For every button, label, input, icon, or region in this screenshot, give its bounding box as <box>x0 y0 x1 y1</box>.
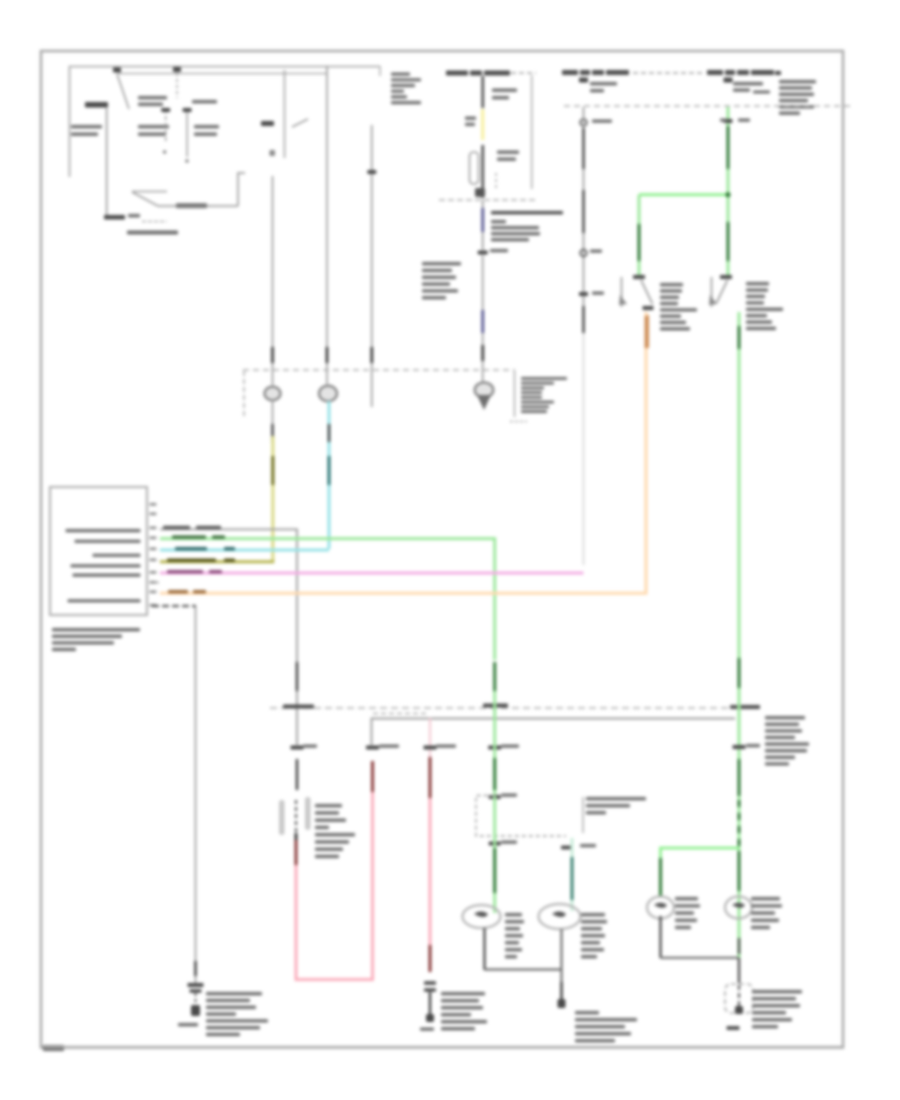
cyan riser below circle <box>328 401 331 549</box>
stop feed dark segment 2 <box>582 190 584 233</box>
x739 dark segment a <box>738 658 741 688</box>
GEM row8 wire dashes <box>152 605 196 607</box>
fuse wire upper dark <box>482 76 484 108</box>
cyan riser dark top <box>328 424 330 442</box>
right BOO switch fixed bar <box>711 277 713 307</box>
connector C diamond tip <box>477 395 491 410</box>
x739 dark above join <box>738 938 740 954</box>
x297 dark segment <box>296 759 299 790</box>
junction dark segment right <box>730 705 760 709</box>
lamp4 body <box>725 897 752 919</box>
pin tick top mid <box>173 67 181 72</box>
label off park <box>138 96 167 106</box>
left BOO connector tick <box>633 275 645 279</box>
x494 splice tick label <box>489 841 517 846</box>
pink wire label 2 <box>209 570 222 573</box>
GEM pin text row1 <box>66 529 141 532</box>
junction dashed bus <box>270 707 758 709</box>
left BOO label block <box>660 283 697 330</box>
lamp3 filament <box>654 903 667 908</box>
GEM pin text row3 <box>93 554 141 557</box>
x739 below join dark <box>738 958 740 983</box>
relay box right edge <box>531 75 533 189</box>
label S main <box>128 214 140 217</box>
label C green feed <box>738 119 750 122</box>
x297 tick label <box>291 745 318 750</box>
main switch wire to riser <box>158 205 238 207</box>
lamp3 label block <box>675 897 700 929</box>
left BOO switch fixed bar <box>621 277 623 307</box>
lamp3 body <box>647 897 674 919</box>
headlamp switch lever <box>117 74 129 109</box>
branch dark segment <box>659 858 662 897</box>
junction row right label block <box>765 716 809 766</box>
lamp3 output wire <box>659 916 661 958</box>
orange wire from GEM <box>160 312 646 593</box>
label stop feed mid <box>590 250 602 253</box>
cyan wire from GEM <box>160 549 329 552</box>
fuse panel label block <box>779 80 816 115</box>
olive wire from GEM <box>160 560 273 562</box>
green feed label tick <box>724 119 733 123</box>
orange wire label <box>168 590 188 593</box>
green wire label <box>172 535 206 538</box>
relay box bottom dashed edge <box>439 199 537 201</box>
pink wire from GEM <box>160 572 584 575</box>
headlamp switch box top edge <box>69 66 380 68</box>
dashed stub below tick <box>176 73 178 98</box>
bottom-left corner mark <box>43 1045 64 1051</box>
left BOO lever <box>641 280 653 304</box>
x430 dark bottom <box>429 992 431 1018</box>
bottom border band <box>44 1046 843 1048</box>
right BOO connector tick <box>720 275 732 279</box>
x430 pink wire <box>429 798 432 947</box>
green junction dot <box>725 192 730 197</box>
left ground dashes <box>195 993 197 1003</box>
gray wire dark segment <box>296 662 299 691</box>
wire riser x272 dark segment <box>271 347 274 363</box>
bus bold text hot at all times 1 <box>562 70 629 75</box>
bars component left bar <box>279 800 285 835</box>
cyan wire label <box>175 547 207 550</box>
left ground wire <box>195 607 197 985</box>
lamp2 label block <box>581 913 607 958</box>
x494 green lower <box>493 796 496 913</box>
DRL module label left of wire <box>422 262 461 299</box>
connector row left dashed edge <box>243 371 245 416</box>
cyan riser dark segment <box>328 456 331 485</box>
main switch riser <box>238 173 245 206</box>
inline connector outline <box>725 984 753 1013</box>
right BOO lever <box>717 280 728 303</box>
bus bottom dashed line <box>564 105 851 107</box>
stop feed tick 2 <box>579 292 588 296</box>
wire x483 lower gray <box>482 255 484 382</box>
green wire label 2 <box>212 535 225 538</box>
x494 dark segment <box>493 662 496 691</box>
contact dot A <box>163 150 166 153</box>
label fuse A <box>590 82 617 92</box>
fuse body outline <box>470 152 479 184</box>
lamp1 body <box>463 905 501 928</box>
x430 end blob <box>426 1014 434 1022</box>
main switch lever bar <box>132 191 167 193</box>
olive wire label <box>167 559 216 562</box>
wire navy segment <box>481 208 484 232</box>
green below right BOO dark <box>738 326 741 349</box>
lamp2 filament <box>552 912 566 918</box>
label on green feed <box>720 119 727 122</box>
x494 tick label row <box>488 745 519 750</box>
wire below relay gray <box>482 200 484 250</box>
x739 long green <box>738 350 741 958</box>
olive wire label 2 <box>224 559 235 562</box>
contact stub B <box>186 108 188 157</box>
lamp2 output dark <box>560 982 562 1004</box>
connector circle C <box>475 383 494 398</box>
lamp1 output wire <box>483 928 485 970</box>
main switch lever arm <box>132 192 158 206</box>
inline connector blob <box>735 1006 743 1014</box>
dashed DRL branch <box>476 796 566 837</box>
GEM pin text row5 <box>73 574 141 577</box>
x372 maroon segment <box>371 761 374 792</box>
label head <box>192 100 217 103</box>
dash under main <box>142 221 167 223</box>
bars component center dashes <box>295 800 297 833</box>
x430 maroon lower <box>429 945 432 972</box>
x494 green mid <box>493 691 496 795</box>
lamp1 filament <box>474 912 488 918</box>
inline connector center <box>738 985 740 1013</box>
connector circle B <box>319 386 337 402</box>
stop feed connector ring <box>580 119 587 126</box>
GEM pin number marks <box>150 503 157 607</box>
label left of relay box <box>391 73 421 105</box>
x430 maroon segment <box>429 757 432 798</box>
GEM pin text row2 <box>75 540 141 543</box>
x430 small left label <box>420 1028 434 1031</box>
lamp2 output wire <box>560 929 562 1004</box>
label head lamps <box>71 125 102 136</box>
lamp1 label block <box>505 913 524 958</box>
fuse wire yellow segment <box>481 109 484 140</box>
green branch dark segment <box>638 224 641 261</box>
mint wire <box>571 838 574 911</box>
headlamp contact bar <box>85 102 108 108</box>
connector row dashed top <box>243 369 515 371</box>
dashed overlay above branch <box>373 713 428 715</box>
wire x483 navy segment 2 <box>481 310 484 333</box>
dimmer feed stub <box>284 70 286 158</box>
DRL note text <box>586 797 646 814</box>
olive riser dark top <box>271 424 273 442</box>
contact tick B <box>183 108 192 112</box>
main switch contact segment <box>176 204 207 209</box>
headlamp switch box top edge inner <box>118 73 327 75</box>
cyan wire label 2 <box>224 547 235 550</box>
label small left <box>465 117 476 127</box>
GEM box <box>50 487 147 615</box>
green feed from bus <box>727 107 730 275</box>
green branch left vertical <box>638 195 641 276</box>
olive riser below circle <box>272 400 274 562</box>
GEM stub pin <box>153 582 159 584</box>
solid branch line <box>372 719 736 746</box>
wire from headlamp contact <box>106 108 108 216</box>
label fuse B right <box>753 91 770 94</box>
DRL note bracket <box>582 797 584 833</box>
bus bold text hot at all times 2 <box>707 70 774 75</box>
dimmer contact tick <box>261 121 274 126</box>
pink U wire <box>296 792 373 980</box>
wire riser x272 upper <box>272 176 274 385</box>
wire riser x272 dash mark <box>270 150 276 156</box>
main switch bottom bar <box>104 215 125 220</box>
wire riser x372 <box>371 125 373 407</box>
left BOO output tick <box>643 306 654 310</box>
green feed dark segment <box>727 126 730 169</box>
mint tick label <box>561 844 596 849</box>
left ground dark segment <box>194 961 197 976</box>
connector row label block <box>515 371 568 417</box>
wire riser x327 dark segment <box>326 347 329 363</box>
wire orange top segment <box>646 315 649 348</box>
bus bold text hot in run <box>446 71 510 76</box>
x430 drop from branch <box>429 718 431 757</box>
wire riser x372 tick <box>367 170 376 174</box>
fuse wire mid dark <box>482 145 484 198</box>
x739 tick label <box>733 744 761 749</box>
stop feed light wire lower <box>583 333 585 565</box>
label MAIN SWITCH <box>127 231 178 235</box>
right pair join wire <box>661 957 740 959</box>
connector circle A <box>265 387 281 401</box>
bars component right bar <box>305 797 311 830</box>
left BOO switch arrow <box>619 295 627 305</box>
cluster label rest <box>491 220 540 241</box>
headlamp switch box left edge <box>69 66 71 177</box>
pin tick on box top <box>113 68 121 73</box>
right ground label block <box>752 990 802 1028</box>
stop feed dark segment 1 <box>582 128 584 169</box>
contact dot B <box>185 159 188 162</box>
stop feed dark segment 3 <box>582 306 584 333</box>
left ground ticks <box>188 983 204 993</box>
stoplamp switch label dashes <box>510 421 527 423</box>
dashed stub in relay box <box>495 173 497 191</box>
dimmer lever <box>292 119 308 127</box>
bars component label block <box>315 804 355 858</box>
x297 maroon segment <box>295 840 298 867</box>
headlamp box top right hook <box>379 66 381 76</box>
wire tick below cluster <box>478 251 488 255</box>
x494 dark lower <box>493 848 496 893</box>
fuse A pin tick <box>579 78 588 83</box>
label fuse B <box>733 82 763 92</box>
lamp2 end blob <box>558 999 566 1008</box>
right BOO switch arrow <box>709 295 717 305</box>
pink wire label <box>167 570 203 573</box>
wire riser x372 dark segment <box>370 347 373 363</box>
left ground G label <box>178 1023 198 1026</box>
green branch horizontal <box>639 193 728 196</box>
fuse B pin tick <box>724 78 733 83</box>
x739 tick bottom <box>727 1026 740 1030</box>
lamp2 body <box>539 904 581 929</box>
orange riser dark tan overlay <box>645 316 648 348</box>
label right of fuse <box>497 151 519 161</box>
x430 tick label <box>424 745 457 750</box>
left pair ground label <box>575 1011 637 1042</box>
contact stub A <box>165 109 167 144</box>
olive riser colored <box>271 436 274 560</box>
stop feed connector ring 2 <box>580 250 587 257</box>
wire riser x327 (box right edge) <box>326 66 328 384</box>
x739 dark segment b <box>738 759 741 796</box>
label 15A fuse <box>492 89 517 100</box>
right lamp branch <box>661 848 740 894</box>
lamp4 filament <box>732 903 745 908</box>
mint dark segment <box>571 857 574 900</box>
bus dashed joining <box>633 72 704 74</box>
x372 tick label <box>366 745 399 750</box>
x739 dash pattern <box>738 800 741 846</box>
bus dashes right of bold <box>511 72 536 74</box>
label stop feed C270 <box>592 292 604 295</box>
x430 connector ticks <box>424 981 436 992</box>
label park lamps <box>138 125 169 136</box>
fuse dark blob <box>475 188 485 197</box>
x430 bottom label block <box>441 992 487 1030</box>
green feed dark segment 2 <box>727 222 730 261</box>
junction dark segment left <box>283 705 314 709</box>
green wire from GEM <box>160 539 495 660</box>
contact tick A <box>161 108 170 112</box>
wire x483 dark segment <box>481 345 484 361</box>
cluster label line1 <box>491 211 563 214</box>
stop feed upper wire <box>583 107 585 333</box>
gray wire label <box>163 526 190 529</box>
left ground label block <box>206 992 268 1036</box>
x494 junction tick label <box>489 794 517 800</box>
GEM pin text row6 <box>68 599 141 602</box>
gray wire from GEM <box>160 529 297 745</box>
left ground blob <box>191 1005 200 1016</box>
lamp pair join wire <box>485 968 563 970</box>
bus small tick right <box>775 71 781 75</box>
junction dark segment mid <box>483 704 508 708</box>
label head lamps 2 <box>194 125 219 136</box>
lamp4 label block <box>751 897 782 929</box>
green below right BOO <box>738 312 741 350</box>
gray wire label 2 <box>196 526 221 529</box>
orange wire label 2 <box>193 590 206 593</box>
x739 dark segment c <box>738 851 741 891</box>
label C220 <box>490 249 508 252</box>
GEM pin text row4 <box>71 564 141 567</box>
GEM label below box <box>52 628 140 651</box>
olive riser dark segment <box>271 456 274 485</box>
x297 dark below bars <box>295 833 298 840</box>
x494 dark mid <box>493 758 496 790</box>
label C stop feed <box>592 120 612 123</box>
right BOO label block <box>746 282 783 330</box>
